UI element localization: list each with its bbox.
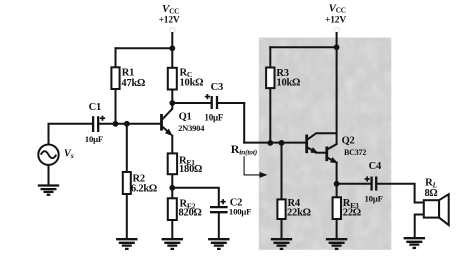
wire emitter node to C2 xyxy=(172,188,219,207)
svg-text:Vs: Vs xyxy=(64,148,74,160)
shaded region (stage 2 highlight) xyxy=(259,38,392,250)
svg-text:Q1: Q1 xyxy=(179,112,192,123)
ground (speaker) xyxy=(404,238,425,248)
capacitor C2 plates xyxy=(210,207,228,212)
resistor RE2 xyxy=(168,198,177,220)
junction node (R3 to base line) xyxy=(267,140,273,146)
wire VCC2 lead xyxy=(336,33,338,47)
polarity + (C2) xyxy=(221,199,226,204)
resistor R4 xyxy=(277,199,285,219)
wire R4 bottom lead xyxy=(281,219,283,239)
transistor Q1 emitter arrow xyxy=(165,129,173,137)
wire R3 bottom lead xyxy=(269,88,271,143)
resistor RC xyxy=(168,68,177,90)
wire corner down to stage2 base line xyxy=(243,103,245,143)
resistor R2 xyxy=(123,172,131,194)
ground (R4) xyxy=(271,239,292,249)
wire Q1 emitter to RE1 xyxy=(171,136,173,154)
wire stage2 supply rail xyxy=(270,46,336,48)
wire R4 top lead xyxy=(281,143,283,200)
junction node (R2 tap) xyxy=(124,121,130,127)
svg-text:Q2: Q2 xyxy=(342,136,355,147)
svg-text:C4: C4 xyxy=(369,161,382,172)
speaker RL xyxy=(424,194,449,225)
wire RC top lead xyxy=(171,48,173,68)
svg-text:10μF: 10μF xyxy=(365,193,383,203)
source Vs xyxy=(38,145,58,165)
capacitor C1 plates xyxy=(93,116,98,132)
wire R3 top lead xyxy=(269,47,271,67)
transistor Q2 second (darlington T2) xyxy=(327,144,337,161)
transistor Q2 T2 emitter arrow xyxy=(330,157,338,163)
svg-text:10μF: 10μF xyxy=(85,134,103,144)
wire RE3 bottom lead xyxy=(336,219,338,239)
svg-text:100μF: 100μF xyxy=(229,207,251,217)
svg-text:C3: C3 xyxy=(211,82,223,93)
wire R2 bottom lead xyxy=(126,194,128,239)
wire R2 top lead xyxy=(126,124,128,172)
transistor Q1 xyxy=(162,109,173,134)
svg-text:VCC: VCC xyxy=(162,3,179,15)
ground (Vs) xyxy=(38,186,59,195)
svg-text:180Ω: 180Ω xyxy=(179,164,202,175)
svg-text:22Ω: 22Ω xyxy=(343,208,361,219)
svg-text:Rin(tot): Rin(tot) xyxy=(231,142,258,157)
svg-text:+12V: +12V xyxy=(159,15,180,25)
polarity + (C3) xyxy=(205,94,210,99)
resistor R3 xyxy=(266,68,274,89)
wire C3 to corner xyxy=(217,102,244,104)
svg-text:2N3904: 2N3904 xyxy=(178,123,205,133)
wire RC bottom lead xyxy=(171,90,173,109)
VCC1 terminal circle (faint) xyxy=(170,28,175,33)
junction node (VCC2 rail) xyxy=(334,44,340,50)
wire Q2 collector vertical xyxy=(336,47,338,144)
wire collector node to C3 xyxy=(172,102,211,104)
junction node (Q2 emitter) xyxy=(334,181,340,187)
wire C2 bottom lead xyxy=(218,212,220,239)
wire emitter node to C4 xyxy=(337,183,372,185)
junction node (R4 to base line) xyxy=(279,140,285,146)
svg-text:10kΩ: 10kΩ xyxy=(180,78,204,89)
svg-text:22kΩ: 22kΩ xyxy=(287,208,311,219)
wire Q2 emitter vertical xyxy=(336,162,338,197)
svg-text:+12V: +12V xyxy=(325,15,346,25)
resistor RE1 xyxy=(168,153,177,174)
wire stage2 base line xyxy=(244,142,307,144)
VCC2 terminal circle (faint) xyxy=(334,27,339,32)
junction node (VCC1 rail) xyxy=(169,45,175,51)
svg-text:10kΩ: 10kΩ xyxy=(276,78,300,89)
ground (RE3) xyxy=(326,239,347,249)
ground (C2) xyxy=(208,239,229,249)
svg-text:10μF: 10μF xyxy=(204,113,224,123)
junction node (Q1 collector) xyxy=(169,100,175,106)
Rin(tot) arrow xyxy=(244,156,267,178)
junction node (C1-R1) xyxy=(113,121,119,127)
wire Vs top lead xyxy=(49,124,93,145)
wire C1 to base node xyxy=(98,123,161,125)
ground (R2) xyxy=(116,239,137,249)
svg-text:VCC: VCC xyxy=(329,2,346,14)
wire RE2 bottom lead xyxy=(171,220,173,239)
wire VCC1 lead xyxy=(171,33,173,48)
transistor Q2 T1 emitter arrow xyxy=(310,147,318,153)
wire speaker return xyxy=(415,215,424,239)
wire RE1 to RE2 xyxy=(171,174,173,198)
resistor RE3 xyxy=(333,197,341,219)
capacitor C4 plates xyxy=(372,177,377,191)
svg-text:BC372: BC372 xyxy=(344,148,366,157)
capacitor C3 plates xyxy=(212,96,217,109)
wire stage1 supply rail xyxy=(116,47,173,49)
wire Vs bottom lead xyxy=(48,165,50,186)
svg-text:47kΩ: 47kΩ xyxy=(121,78,145,89)
wire R1 bottom lead xyxy=(115,89,117,124)
svg-text:6.2kΩ: 6.2kΩ xyxy=(131,184,157,195)
ground (RE2) xyxy=(162,239,183,249)
junction node (RE1-RE2) xyxy=(169,185,175,191)
svg-text:C1: C1 xyxy=(89,102,101,113)
svg-text:8Ω: 8Ω xyxy=(425,188,438,199)
wire C4 to speaker xyxy=(376,184,424,203)
polarity + (C4) xyxy=(365,176,370,181)
resistor R1 xyxy=(111,67,119,89)
svg-text:820Ω: 820Ω xyxy=(179,208,202,219)
wire R1 top lead xyxy=(115,48,117,67)
polarity + (C1) xyxy=(100,116,105,121)
transistor Q2 first (darlington T1) xyxy=(307,133,337,153)
